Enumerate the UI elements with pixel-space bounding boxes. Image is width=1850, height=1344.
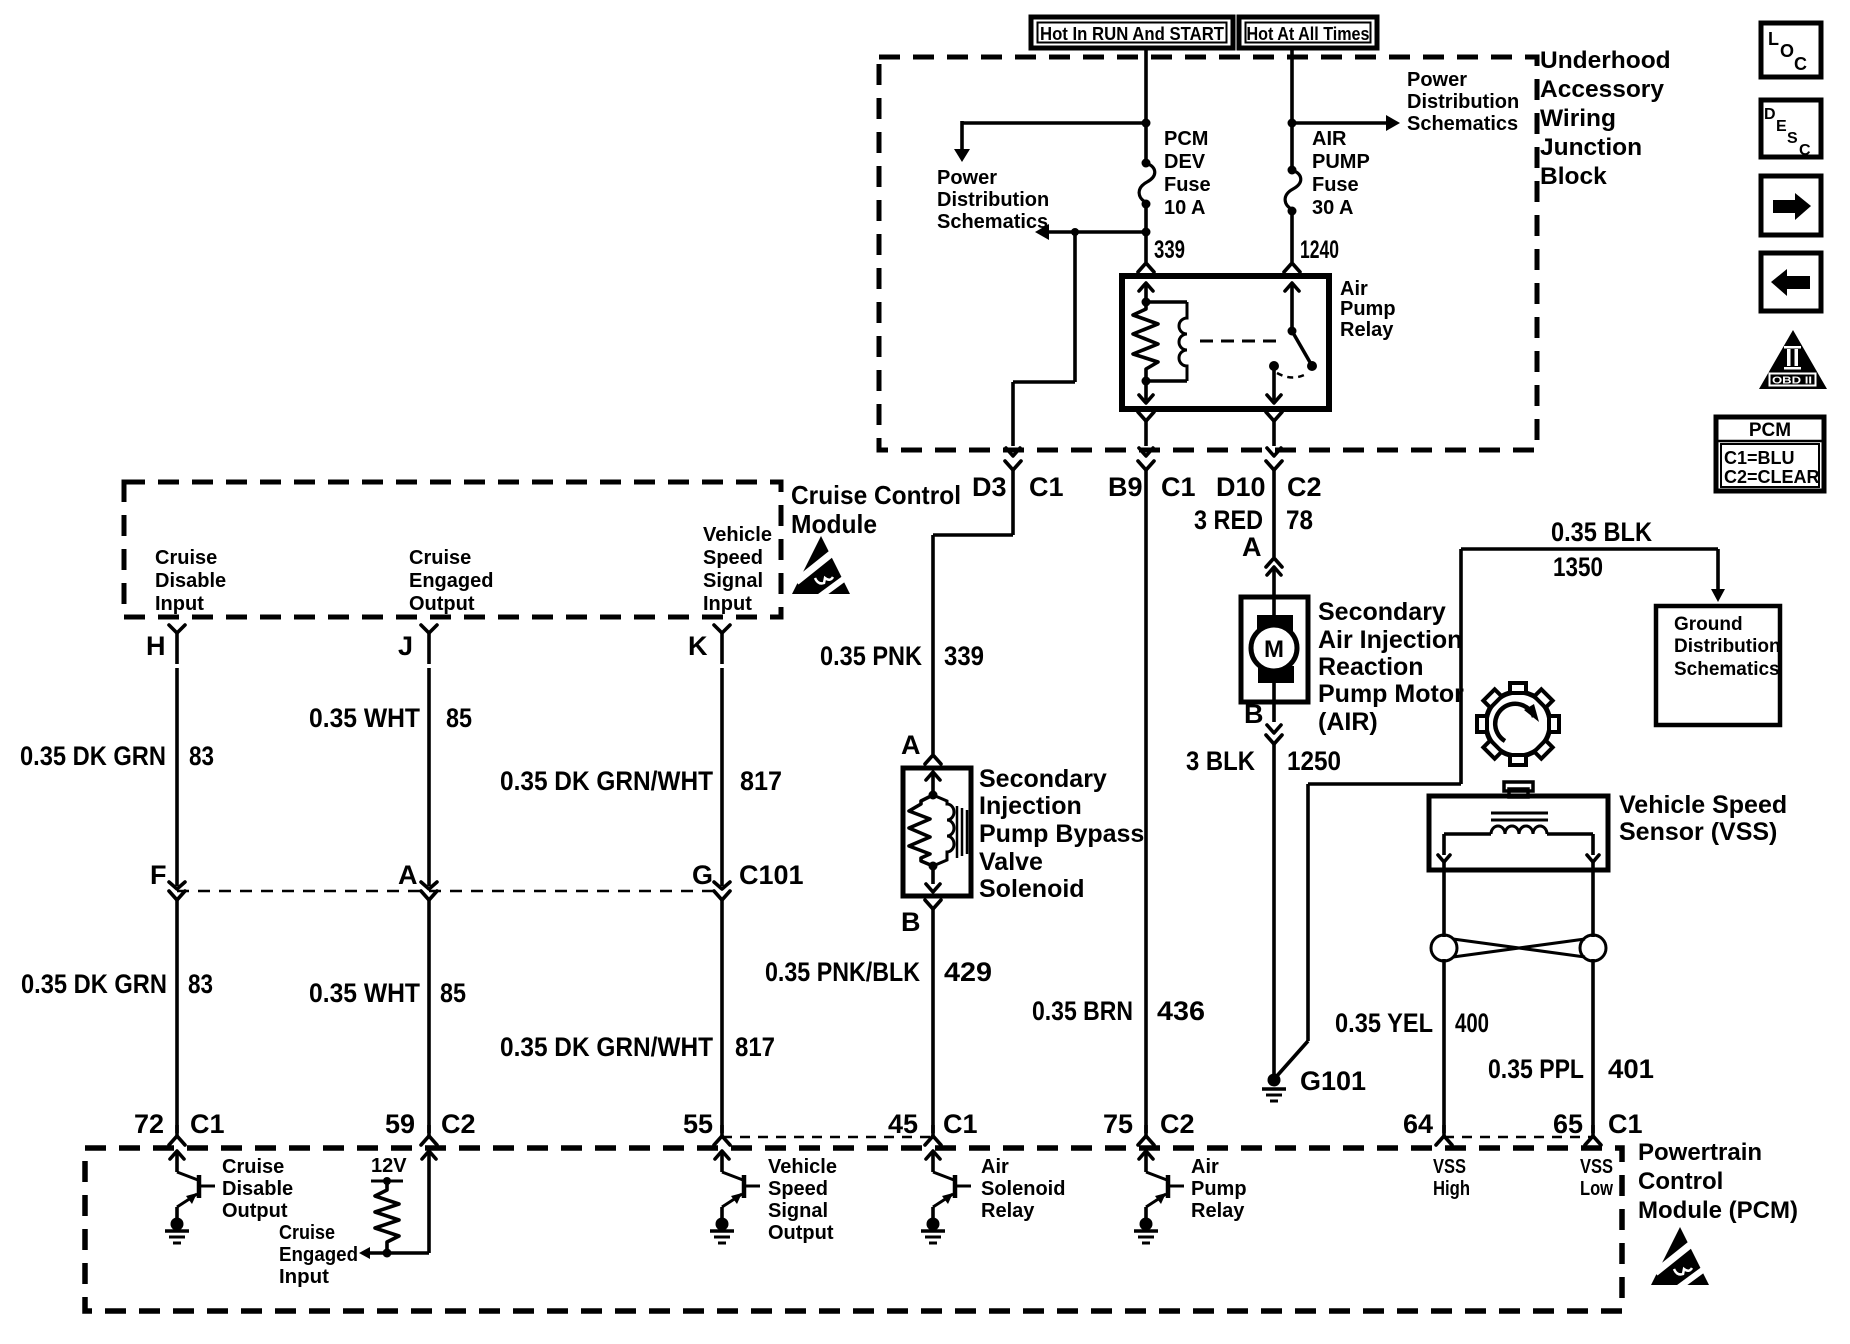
wire: 0.35 DK GRN/WHT 817 (vss signal, upper)	[720, 668, 724, 886]
svg-text:Vehicle Speed: Vehicle Speed	[1619, 791, 1787, 819]
connector pins: 75 C2	[1103, 1109, 1195, 1145]
wire: 0.35 PNK/BLK 429 to PCM pin 45	[931, 916, 935, 1133]
svg-text:Fuse: Fuse	[1312, 174, 1359, 196]
icon button: LOC	[1761, 23, 1821, 77]
svg-text:B9: B9	[1108, 472, 1143, 502]
label: Power Distribution Schematics (right)	[1407, 69, 1519, 135]
svg-text:Vehicle: Vehicle	[768, 1156, 837, 1178]
resistor: solenoid winding resistance	[909, 791, 938, 871]
svg-text:436: 436	[1157, 996, 1205, 1026]
svg-text:C2: C2	[441, 1109, 476, 1139]
svg-text:Module (PCM): Module (PCM)	[1638, 1197, 1798, 1224]
svg-text:339: 339	[1154, 236, 1185, 264]
label: 0.35 PPL 401	[1488, 1054, 1654, 1084]
svg-text:Engaged: Engaged	[279, 1244, 358, 1266]
connector C1 dashed link 55-45	[722, 1136, 930, 1139]
wire: relay switch output down	[1267, 366, 1281, 403]
svg-text:339: 339	[944, 641, 984, 671]
label: PCM DEV Fuse 10 A	[1164, 128, 1211, 219]
label: 3 BLK 1250	[1186, 746, 1341, 776]
coil: VSS pickup coil	[1438, 826, 1599, 862]
wire: 3 RED 78 from D10 to pump motor	[1272, 481, 1276, 557]
label: 0.35 DK GRN/WHT 817 (upper)	[500, 766, 782, 796]
svg-text:Injection: Injection	[979, 792, 1082, 820]
resistor: relay coil suppression resistor	[1133, 298, 1158, 386]
svg-text:Cruise: Cruise	[222, 1156, 284, 1178]
connector pin H	[146, 625, 185, 664]
wire: VSS high lead	[1442, 862, 1446, 937]
svg-text:72: 72	[134, 1109, 164, 1139]
relay switch blade and contacts	[1269, 327, 1317, 378]
svg-text:3 RED: 3 RED	[1194, 505, 1263, 535]
svg-text:Distribution: Distribution	[1674, 636, 1781, 657]
svg-text:C1: C1	[1161, 472, 1196, 502]
svg-text:817: 817	[735, 1032, 775, 1062]
svg-text:0.35 DK GRN: 0.35 DK GRN	[21, 969, 167, 999]
svg-text:Signal: Signal	[703, 570, 763, 592]
svg-text:Disable: Disable	[222, 1178, 293, 1200]
svg-text:1250: 1250	[1287, 746, 1341, 776]
wire: 0.35 YEL 400 to PCM pin 64	[1442, 959, 1446, 1133]
label: Cruise Engaged Input	[279, 1222, 358, 1288]
connector pins: D3 C1	[972, 461, 1064, 502]
label: 0.35 DK GRN 83 (lower)	[21, 969, 213, 999]
svg-text:C1: C1	[1029, 472, 1064, 502]
label: 0.35 WHT 85 (lower)	[309, 978, 466, 1008]
svg-text:L: L	[1768, 29, 1779, 49]
connector pin J	[398, 625, 437, 664]
svg-text:A: A	[901, 730, 921, 760]
motor: Secondary Air Injection Reaction Pump Motor (AIR)	[1241, 597, 1308, 722]
connector pins: 45 C1	[888, 1109, 978, 1145]
label: Cruise Control Module	[791, 480, 961, 539]
ESD sensitivity symbol (Cruise Control Module)	[792, 536, 852, 602]
svg-text:Pump: Pump	[1191, 1178, 1247, 1200]
connector pin: 55	[683, 1109, 730, 1145]
svg-text:0.35 PPL: 0.35 PPL	[1488, 1054, 1584, 1084]
relay: Air Pump Relay box	[1122, 276, 1329, 409]
svg-text:Input: Input	[703, 593, 752, 615]
svg-text:High: High	[1433, 1178, 1470, 1200]
svg-text:Cruise: Cruise	[409, 547, 471, 569]
connector pin: 64	[1403, 1109, 1452, 1145]
svg-text:C1=BLU: C1=BLU	[1724, 448, 1795, 468]
svg-text:64: 64	[1403, 1109, 1433, 1139]
label: AIR PUMP Fuse 30 A	[1312, 128, 1370, 219]
wire: 0.35 PPL 401 to PCM pin 65	[1591, 959, 1595, 1133]
connector: motor pin B	[1244, 699, 1282, 756]
svg-text:0.35 PNK: 0.35 PNK	[820, 641, 922, 671]
svg-text:B: B	[901, 907, 921, 937]
wire: 3 BLK 1250 from motor to G101	[1272, 756, 1276, 1076]
svg-text:Hot In RUN And START: Hot In RUN And START	[1040, 24, 1224, 44]
relay coil-side input arrow	[1139, 283, 1153, 302]
svg-text:C2: C2	[1287, 472, 1322, 502]
VSS pickup core bars	[1491, 813, 1548, 820]
svg-text:O: O	[1780, 41, 1794, 61]
label: Secondary Injection Pump Bypass Valve Solenoid	[979, 765, 1144, 903]
svg-text:Schematics: Schematics	[937, 211, 1048, 233]
svg-text:0.35 WHT: 0.35 WHT	[309, 703, 420, 733]
twisted pair symbol	[1431, 935, 1606, 961]
svg-text:E: E	[1776, 118, 1787, 135]
wire: 0.35 BRN 436 from B9 to PCM pin 75	[1144, 481, 1148, 1133]
transistor: Vehicle Speed Signal Output driver	[710, 1151, 760, 1243]
svg-text:K: K	[688, 631, 708, 661]
svg-text:0.35 PNK/BLK: 0.35 PNK/BLK	[765, 957, 920, 987]
connector: fuse-to-relay right (in-line)	[1284, 263, 1300, 272]
wire: 0.35 WHT 85 (lower)	[427, 911, 431, 1133]
solenoid: Secondary Injection Pump Bypass Valve Solenoid box	[903, 768, 971, 896]
svg-text:Hot At All Times: Hot At All Times	[1247, 24, 1370, 44]
svg-text:Junction: Junction	[1540, 134, 1642, 161]
icon button: DESC	[1761, 100, 1821, 159]
Cruise Control Module dashed box	[124, 482, 781, 617]
svg-text:OBD II: OBD II	[1772, 375, 1812, 387]
wire: 0.35 WHT 85 (cruise engaged, upper)	[427, 668, 431, 886]
svg-text:Speed: Speed	[703, 547, 763, 569]
label: Air Pump Relay (PCM)	[1191, 1156, 1247, 1222]
wire: Hot At All Times feed down to AIR PUMP fuse	[1290, 47, 1294, 170]
connector C101 pin A	[398, 860, 437, 911]
connector pins: 72 C1	[134, 1109, 225, 1145]
svg-text:Control: Control	[1638, 1168, 1723, 1195]
svg-text:85: 85	[440, 978, 466, 1008]
svg-text:Module: Module	[791, 509, 877, 539]
svg-text:D: D	[1764, 106, 1776, 123]
wire: 0.35 DK GRN 83 (lower)	[175, 911, 179, 1133]
svg-text:B: B	[1244, 699, 1264, 729]
svg-text:Input: Input	[155, 593, 204, 615]
icon button: forward arrow	[1761, 176, 1821, 235]
svg-text:0.35 BRN: 0.35 BRN	[1032, 996, 1133, 1026]
power feed box: Hot At All Times	[1239, 17, 1377, 48]
label: Cruise Engaged Output	[409, 547, 493, 615]
svg-text:Solenoid: Solenoid	[979, 875, 1085, 903]
connector C101 pin G	[692, 860, 804, 911]
svg-text:Reaction: Reaction	[1318, 653, 1424, 681]
power feed box: Hot In RUN And START	[1031, 17, 1233, 48]
svg-text:Underhood: Underhood	[1540, 47, 1671, 74]
svg-text:55: 55	[683, 1109, 713, 1139]
wire: 0.35 PNK 339 from D3 to solenoid	[933, 481, 1013, 754]
svg-text:0.35 DK GRN: 0.35 DK GRN	[20, 741, 166, 771]
connector pins: B9 C1	[1108, 461, 1196, 502]
svg-text:Sensor (VSS): Sensor (VSS)	[1619, 818, 1777, 846]
icon button: back arrow	[1761, 253, 1821, 311]
svg-text:Output: Output	[409, 593, 475, 615]
svg-text:C1: C1	[943, 1109, 978, 1139]
svg-text:75: 75	[1103, 1109, 1133, 1139]
svg-text:Air: Air	[981, 1156, 1009, 1178]
svg-text:Cruise Control: Cruise Control	[791, 480, 961, 510]
svg-text:Vehicle: Vehicle	[703, 524, 772, 546]
label: Power Distribution Schematics (left)	[937, 167, 1049, 233]
connector: motor pin A	[1242, 532, 1282, 600]
label: 0.35 DK GRN/WHT 817 (lower)	[500, 1032, 775, 1062]
svg-text:C101: C101	[739, 860, 804, 890]
svg-text:78: 78	[1286, 505, 1313, 535]
wire: fuse output 1240 to relay	[1290, 210, 1294, 262]
svg-text:Solenoid: Solenoid	[981, 1178, 1065, 1200]
svg-text:C2: C2	[1160, 1109, 1195, 1139]
label: Underhood Accessory Wiring Junction Block	[1540, 47, 1671, 190]
label: Powertrain Control Module (PCM)	[1638, 1139, 1798, 1224]
label: Cruise Disable Input	[155, 547, 226, 615]
svg-text:Valve: Valve	[979, 848, 1043, 876]
wire: 339 branch down to D3 connector	[1006, 232, 1075, 456]
svg-text:65: 65	[1553, 1109, 1583, 1139]
svg-text:0.35 DK GRN/WHT: 0.35 DK GRN/WHT	[500, 766, 713, 796]
connector: fuse-to-relay left (in-line)	[1138, 263, 1154, 272]
svg-text:PCM: PCM	[1164, 128, 1208, 150]
svg-text:Cruise: Cruise	[155, 547, 217, 569]
svg-text:Secondary: Secondary	[1318, 598, 1446, 626]
svg-text:C: C	[1799, 142, 1811, 159]
connector: solenoid pin A	[901, 730, 941, 795]
label: 3 RED 78	[1194, 505, 1313, 535]
transistor: Cruise Disable Output driver	[165, 1151, 215, 1243]
coil: relay winding (parallel branch)	[1146, 302, 1187, 381]
svg-text:Output: Output	[222, 1200, 288, 1222]
connector C1 dashed link 64-65	[1444, 1136, 1593, 1139]
reluctor wheel symbol (VSS trigger)	[1477, 683, 1559, 765]
label: 0.35 DK GRN 83 (upper)	[20, 741, 214, 771]
fuse: PCM DEV Fuse 10 A	[1139, 159, 1155, 209]
connector: solenoid pin B	[901, 900, 941, 937]
svg-text:D3: D3	[972, 472, 1007, 502]
label: Secondary Air Injection Reaction Pump Motor (AIR)	[1318, 598, 1464, 736]
wire: branch to Power Distribution (upper left)	[954, 119, 1151, 163]
svg-text:Signal: Signal	[768, 1200, 828, 1222]
transistor: Air Pump Relay driver	[1134, 1151, 1184, 1243]
connector pin K	[688, 625, 730, 664]
svg-text:(AIR): (AIR)	[1318, 708, 1378, 736]
svg-text:A: A	[1242, 532, 1262, 562]
svg-text:Cruise: Cruise	[279, 1222, 335, 1244]
svg-text:J: J	[398, 631, 413, 661]
svg-text:Pump Bypass: Pump Bypass	[979, 820, 1144, 848]
svg-text:Ground: Ground	[1674, 614, 1743, 635]
sensor: Vehicle Speed Sensor (VSS) box	[1429, 796, 1608, 870]
svg-text:Secondary: Secondary	[979, 765, 1107, 793]
label: VSS High	[1433, 1156, 1470, 1200]
wire: solenoid internal output	[926, 866, 940, 892]
svg-text:C1: C1	[1608, 1109, 1643, 1139]
connector: relay right output leaving block (D10)	[1266, 412, 1282, 456]
label: 0.35 PNK/BLK 429	[765, 957, 992, 987]
svg-text:Fuse: Fuse	[1164, 174, 1211, 196]
svg-text:VSS: VSS	[1433, 1156, 1466, 1178]
svg-text:Low: Low	[1580, 1178, 1613, 1200]
Powertrain Control Module dashed box	[85, 1148, 1622, 1311]
svg-text:Schematics: Schematics	[1674, 659, 1780, 680]
label: Vehicle Speed Signal Output	[768, 1156, 837, 1244]
label: 0.35 WHT 85 (upper)	[309, 703, 472, 733]
svg-text:Accessory: Accessory	[1540, 76, 1664, 103]
solenoid core lines	[957, 806, 967, 858]
svg-text:Power: Power	[937, 167, 997, 189]
svg-text:Schematics: Schematics	[1407, 113, 1518, 135]
label: 0.35 PNK 339	[820, 641, 984, 671]
svg-text:Powertrain: Powertrain	[1638, 1139, 1762, 1166]
icon: OBD II triangle	[1759, 330, 1827, 389]
VSS connector tab	[1504, 782, 1533, 797]
svg-text:C: C	[1794, 54, 1807, 74]
svg-text:F: F	[150, 860, 167, 890]
svg-text:Distribution: Distribution	[937, 189, 1049, 211]
legend box: PCM connectors	[1716, 417, 1824, 491]
svg-text:Relay: Relay	[1191, 1200, 1245, 1222]
svg-text:1240: 1240	[1300, 236, 1339, 264]
svg-text:Distribution: Distribution	[1407, 91, 1519, 113]
svg-text:Output: Output	[768, 1222, 834, 1244]
svg-text:45: 45	[888, 1109, 918, 1139]
svg-text:Wiring: Wiring	[1540, 105, 1616, 132]
svg-text:PCM: PCM	[1749, 420, 1791, 441]
coil: solenoid winding	[933, 795, 954, 866]
svg-text:G: G	[692, 860, 713, 890]
svg-text:Air Injection: Air Injection	[1318, 626, 1462, 654]
svg-text:429: 429	[944, 957, 992, 987]
svg-text:400: 400	[1455, 1008, 1489, 1038]
svg-text:D10: D10	[1216, 472, 1266, 502]
svg-text:Pump: Pump	[1340, 298, 1396, 320]
svg-text:817: 817	[740, 766, 782, 796]
connector: relay left output leaving block (B9)	[1138, 412, 1154, 456]
wire: relay coil output down	[1139, 381, 1153, 403]
label: VSS Low	[1580, 1156, 1613, 1200]
svg-text:S: S	[1787, 130, 1798, 147]
svg-text:Input: Input	[279, 1266, 329, 1288]
wire: 0.35 DK GRN/WHT 817 (lower)	[720, 911, 724, 1133]
label: 0.35 BRN 436	[1032, 996, 1205, 1026]
svg-text:Relay: Relay	[981, 1200, 1035, 1222]
svg-text:Pump Motor: Pump Motor	[1318, 680, 1464, 708]
svg-text:85: 85	[446, 703, 472, 733]
svg-text:A: A	[398, 860, 418, 890]
transistor: Air Solenoid Relay driver	[921, 1151, 971, 1243]
svg-text:H: H	[146, 631, 166, 661]
connector pins: 65 C1	[1553, 1109, 1643, 1145]
svg-text:Block: Block	[1540, 163, 1607, 190]
svg-text:C1: C1	[190, 1109, 225, 1139]
connector C101 dashed line	[177, 890, 722, 893]
svg-text:1350: 1350	[1553, 552, 1603, 582]
label: Cruise Disable Output	[222, 1156, 293, 1222]
svg-text:30 A: 30 A	[1312, 197, 1354, 219]
svg-text:401: 401	[1608, 1054, 1654, 1084]
wire: 0.35 DK GRN 83 (cruise disable, upper)	[175, 668, 179, 886]
svg-text:83: 83	[189, 741, 214, 771]
fuse: AIR PUMP Fuse 30 A	[1285, 166, 1301, 216]
12V pull-up and resistor: Cruise Engaged Input	[359, 1151, 436, 1259]
svg-text:0.35 YEL: 0.35 YEL	[1335, 1008, 1433, 1038]
label: 0.35 BLK 1350	[1551, 517, 1652, 582]
label: Vehicle Speed Sensor (VSS)	[1619, 791, 1787, 846]
wire: branch to Power Distribution Schematics arrow (right)	[1288, 115, 1401, 131]
svg-text:59: 59	[385, 1109, 415, 1139]
svg-text:0.35 WHT: 0.35 WHT	[309, 978, 420, 1008]
relay actuation dashed link	[1200, 340, 1282, 343]
svg-text:3 BLK: 3 BLK	[1186, 746, 1255, 776]
label: Air Solenoid Relay	[981, 1156, 1065, 1222]
ground: G101	[1262, 1066, 1366, 1101]
Underhood Accessory Wiring Junction Block dashed box	[879, 57, 1537, 450]
svg-text:AIR: AIR	[1312, 128, 1347, 150]
connector pins: 59 C2	[385, 1109, 476, 1145]
reference box: Ground Distribution Schematics	[1656, 606, 1781, 725]
svg-text:Air: Air	[1191, 1156, 1219, 1178]
svg-text:Relay: Relay	[1340, 319, 1394, 341]
svg-text:M: M	[1264, 636, 1284, 663]
svg-text:G101: G101	[1300, 1066, 1366, 1096]
label: 0.35 YEL 400	[1335, 1008, 1489, 1038]
wire: branch to Power Distribution Schematics arrow (left)	[1035, 224, 1146, 240]
wire: VSS low lead	[1591, 862, 1595, 937]
ESD sensitivity symbol (PCM)	[1651, 1227, 1711, 1293]
connector pins: D10 C2	[1216, 461, 1322, 502]
svg-text:Engaged: Engaged	[409, 570, 493, 592]
svg-text:0.35 BLK: 0.35 BLK	[1551, 517, 1652, 547]
svg-text:DEV: DEV	[1164, 151, 1206, 173]
svg-text:83: 83	[188, 969, 213, 999]
svg-text:0.35 DK GRN/WHT: 0.35 DK GRN/WHT	[500, 1032, 713, 1062]
label: Air Pump Relay	[1340, 278, 1396, 341]
relay switch-side input arrow	[1285, 283, 1299, 331]
wire: Hot In RUN And START feed down to PCM DEV fuse	[1144, 47, 1148, 163]
svg-text:Power: Power	[1407, 69, 1467, 91]
wire: 0.35 BLK 1350 ground distribution run	[1276, 549, 1725, 1077]
svg-text:VSS: VSS	[1580, 1156, 1613, 1178]
svg-text:Speed: Speed	[768, 1178, 828, 1200]
label: Vehicle Speed Signal Input	[703, 524, 772, 615]
svg-text:C2=CLEAR: C2=CLEAR	[1724, 467, 1820, 487]
wire: fuse output to node 339	[1142, 204, 1151, 262]
connector C101 pin F	[150, 860, 185, 911]
svg-text:10 A: 10 A	[1164, 197, 1206, 219]
svg-text:12V: 12V	[371, 1155, 407, 1177]
svg-text:Air: Air	[1340, 278, 1368, 300]
svg-text:PUMP: PUMP	[1312, 151, 1370, 173]
svg-text:Disable: Disable	[155, 570, 226, 592]
